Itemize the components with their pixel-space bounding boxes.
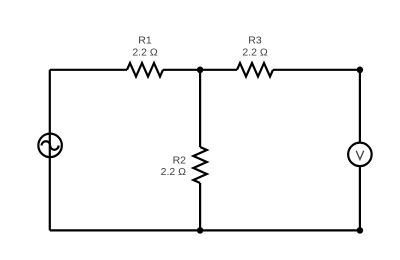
wire: middle vertical upper	[199, 70, 201, 147]
wire: left vertical (through AC source)	[49, 70, 51, 231]
node C (bottom middle junction)	[197, 227, 204, 234]
svg-text:R3: R3	[248, 35, 262, 47]
wire: top middle segment	[163, 69, 237, 71]
AC source V1 sine wave	[42, 141, 59, 150]
wire: right vertical upper	[359, 70, 361, 143]
wire: top left segment	[50, 69, 127, 71]
wire: middle vertical lower	[199, 183, 201, 230]
node B (top right junction)	[357, 67, 364, 74]
AC source V1 circle	[38, 134, 62, 158]
wire: bottom	[50, 229, 360, 231]
node A (top middle junction)	[197, 67, 204, 74]
resistor R2	[193, 147, 207, 183]
voltmeter M1 circle	[348, 143, 372, 167]
resistor R1	[127, 63, 163, 77]
svg-text:R2: R2	[173, 154, 187, 166]
svg-text:2.2 Ω: 2.2 Ω	[242, 47, 268, 59]
svg-text:2.2 Ω: 2.2 Ω	[132, 47, 158, 59]
node D (bottom right junction)	[357, 227, 364, 234]
svg-text:2.2 Ω: 2.2 Ω	[161, 166, 187, 178]
resistor R3	[237, 63, 273, 77]
wire: top right segment	[273, 69, 360, 71]
voltmeter M1 letter V	[356, 151, 364, 160]
svg-text:R1: R1	[138, 35, 152, 47]
wire: right vertical lower	[359, 166, 361, 230]
